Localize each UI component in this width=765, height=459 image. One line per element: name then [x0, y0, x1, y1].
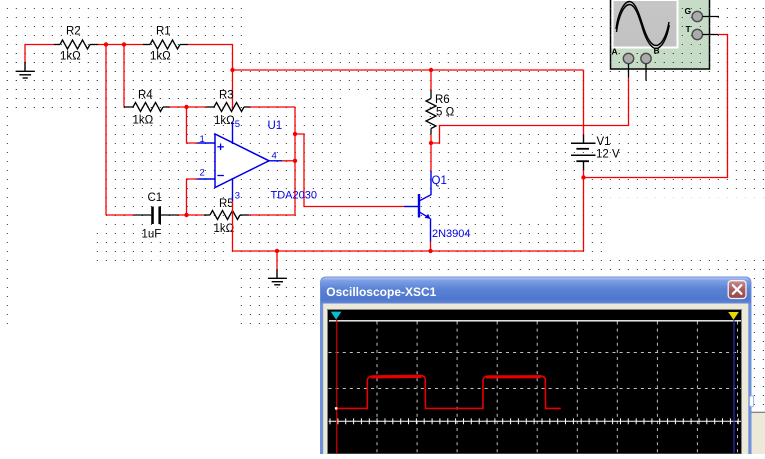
node junction ground2 — [275, 249, 279, 253]
trace start marker — [335, 407, 337, 409]
svg-text:12 V: 12 V — [596, 148, 620, 160]
svg-text:B: B — [654, 46, 660, 56]
cursor 2 handle (yellow triangle) — [728, 312, 739, 320]
title bar — [321, 278, 751, 304]
svg-text:Q1: Q1 — [432, 175, 447, 187]
blue T2 cursor line — [733, 320, 735, 454]
svg-text:T: T — [686, 24, 692, 34]
wire: jog to transistor base — [295, 134, 404, 207]
wire: ground1 to R2 — [25, 45, 54, 63]
wire: R3 right to feedback column — [250, 106, 295, 108]
battery V1 — [571, 135, 596, 171]
op-amp plus sign — [217, 144, 224, 151]
svg-text:R2: R2 — [66, 26, 81, 38]
svg-text:V1: V1 — [597, 136, 611, 148]
transistor Q1 — [404, 194, 431, 242]
wire: emitter to rail — [430, 242, 432, 252]
terminal G stub wire — [703, 16, 720, 18]
node junction C1/pin2 — [184, 213, 188, 217]
close button — [728, 281, 746, 299]
wire: x124 down to R4 — [123, 45, 125, 108]
svg-text:TDA2030: TDA2030 — [271, 190, 317, 202]
svg-text:C1: C1 — [148, 192, 163, 204]
svg-text:R5: R5 — [219, 198, 234, 210]
wire: top rail to V1 — [233, 69, 584, 71]
node junction A-tap — [429, 141, 433, 145]
bottom-right beige panel — [752, 412, 765, 454]
node junction rail/R6 — [429, 68, 433, 72]
transistor Q1 collector lead — [430, 171, 432, 195]
svg-text:1kΩ: 1kΩ — [133, 115, 154, 127]
ground symbol 1 — [16, 62, 35, 78]
svg-text:2N3904: 2N3904 — [432, 228, 471, 240]
svg-text:G: G — [685, 6, 692, 16]
capacitor C1 — [134, 214, 151, 216]
terminal A stub wire — [628, 64, 630, 78]
wire: A channel tap to oscilloscope A — [431, 78, 629, 144]
svg-text:1kΩ: 1kΩ — [214, 223, 235, 235]
ticked time axis — [329, 420, 742, 422]
terminal B stub wire (unconnected) — [645, 64, 647, 81]
axis ticks — [330, 418, 738, 424]
terminal B — [641, 53, 651, 63]
wire: T channel to oscilloscope — [584, 35, 728, 178]
node junction at x=124 — [122, 42, 126, 46]
resistor R2 — [54, 44, 60, 46]
svg-text:R6: R6 — [435, 94, 450, 106]
node junction x295 upper — [293, 132, 297, 136]
wire: R1 right, down to R3/pin5 column — [188, 45, 233, 111]
wire: C1 to R5 — [179, 214, 205, 216]
resistor R1 — [143, 44, 150, 46]
terminal G — [692, 11, 702, 21]
wire: output stub — [282, 160, 295, 162]
wire: bottom rail — [233, 250, 584, 252]
oscilloscope icon screen — [612, 0, 679, 49]
terminal T stub wire — [703, 34, 719, 36]
node junction at x=106 — [104, 42, 108, 46]
node junction x295 output — [293, 159, 297, 163]
window frame — [320, 277, 752, 455]
op-amp U1 body — [215, 134, 269, 188]
Oscilloscope-XSC1 window — [320, 277, 752, 455]
cursor 1 handle (cyan triangle) — [331, 312, 342, 320]
resistor R6 (vertical) — [430, 90, 432, 99]
wire: pin2 riser and stub — [187, 179, 198, 215]
scope bezel and black screen — [328, 310, 742, 455]
terminal T — [692, 29, 702, 39]
waveform thick top edges — [371, 376, 541, 379]
right edge: scrollbar thumb outline — [750, 396, 754, 407]
node junction emitter/rail — [428, 249, 432, 253]
resistor R5 — [204, 214, 210, 216]
oscilloscope icon sine wave — [616, 2, 669, 46]
red T1 cursor line — [336, 320, 338, 454]
svg-text:R3: R3 — [219, 90, 234, 102]
node junction R4/pin1 — [184, 105, 188, 109]
wire: V1 bottom to rail corner — [583, 170, 585, 251]
wire: V1 top from rail — [583, 70, 585, 135]
wire: ground2 stem — [276, 251, 278, 270]
wire: R2 to R1 — [98, 44, 143, 46]
svg-text:4: 4 — [272, 151, 277, 162]
svg-text:1kΩ: 1kΩ — [60, 51, 81, 63]
wire: R4 to R3 — [169, 106, 206, 108]
dashed grid horizontals — [329, 353, 742, 389]
svg-text:1kΩ: 1kΩ — [150, 51, 171, 63]
wire: R6 bottom to collector — [430, 134, 432, 172]
wire: pin3 down to bottom rail — [232, 201, 234, 251]
node junction rail/pin5 column — [230, 68, 234, 72]
transistor Q1 emitter arrow — [425, 214, 431, 219]
wire: C1 left — [106, 214, 134, 216]
svg-text:1uF: 1uF — [142, 229, 162, 241]
wire: feedback column x295 — [294, 107, 296, 215]
wire: x106 down to C1 — [105, 45, 107, 216]
wire: pin1 drop and stub — [187, 107, 198, 143]
svg-text:R4: R4 — [138, 90, 153, 102]
node junction V1/T — [581, 175, 585, 179]
terminal A — [623, 53, 633, 63]
svg-text:5 Ω: 5 Ω — [436, 106, 455, 118]
waveform trace channel A — [337, 376, 561, 409]
client area — [323, 304, 748, 455]
ground symbol 2 — [268, 270, 287, 285]
wire: R6 top from rail — [430, 70, 432, 91]
dashed grid verticals — [377, 322, 738, 455]
op-amp pin stubs — [198, 142, 216, 144]
svg-text:5: 5 — [235, 119, 240, 130]
svg-text:2: 2 — [200, 168, 205, 179]
resistor R4 — [124, 106, 133, 108]
svg-text:A: A — [612, 47, 618, 57]
svg-text:1: 1 — [200, 134, 205, 145]
svg-text:Oscilloscope-XSC1: Oscilloscope-XSC1 — [326, 285, 436, 299]
svg-text:3: 3 — [235, 190, 240, 201]
svg-text:U1: U1 — [268, 120, 283, 132]
resistor R3 — [206, 106, 214, 108]
oscilloscope icon XSC1 green box — [611, 0, 710, 69]
svg-text:R1: R1 — [156, 26, 171, 38]
screen top line — [329, 320, 741, 322]
op-amp minus sign — [217, 175, 224, 177]
wire: R5 right to feedback column — [249, 214, 295, 216]
